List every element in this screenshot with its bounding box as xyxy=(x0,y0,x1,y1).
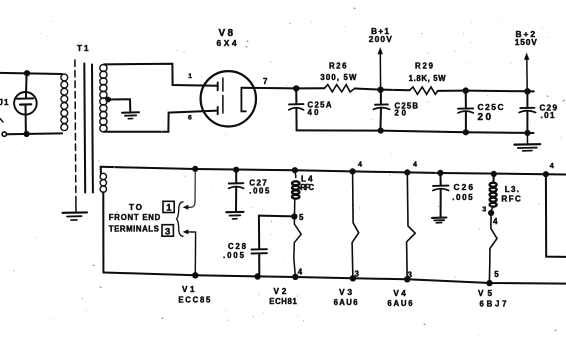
svg-text:RFC: RFC xyxy=(300,183,314,192)
svg-text:C28: C28 xyxy=(228,242,247,251)
svg-text:ECC85: ECC85 xyxy=(178,296,211,305)
svg-text:J1: J1 xyxy=(0,98,9,107)
svg-text:1: 1 xyxy=(166,203,172,214)
svg-text:TERMINALS: TERMINALS xyxy=(109,224,159,233)
svg-text:3: 3 xyxy=(408,271,413,280)
svg-text:200V: 200V xyxy=(369,34,392,44)
svg-text:.005: .005 xyxy=(223,251,245,260)
svg-text:5: 5 xyxy=(299,213,304,222)
svg-text:R29: R29 xyxy=(415,61,434,70)
svg-text:1: 1 xyxy=(188,73,192,80)
svg-text:5: 5 xyxy=(494,270,499,279)
svg-text:3: 3 xyxy=(355,270,360,279)
svg-text:RFC: RFC xyxy=(501,194,521,203)
svg-text:R26: R26 xyxy=(329,61,347,70)
svg-text:3: 3 xyxy=(165,226,170,237)
svg-text:FRONT END: FRONT END xyxy=(109,213,161,222)
svg-text:150V: 150V xyxy=(515,37,537,47)
svg-text:C26: C26 xyxy=(454,182,474,192)
svg-text:TO: TO xyxy=(129,203,143,212)
svg-text:6AU6: 6AU6 xyxy=(387,299,413,308)
svg-text:40: 40 xyxy=(308,108,320,117)
svg-text:1.8K, 5W: 1.8K, 5W xyxy=(409,74,447,83)
svg-text:3: 3 xyxy=(482,205,486,214)
svg-text:300, 5W: 300, 5W xyxy=(320,73,357,82)
svg-text:6AU6: 6AU6 xyxy=(334,298,359,307)
svg-text:4: 4 xyxy=(493,217,498,226)
svg-text:T1: T1 xyxy=(77,44,90,53)
svg-text:6X4: 6X4 xyxy=(217,38,237,48)
svg-text:4: 4 xyxy=(358,159,362,168)
svg-text:.005: .005 xyxy=(452,193,473,202)
svg-text:7: 7 xyxy=(263,77,268,86)
svg-text:.01: .01 xyxy=(541,111,555,120)
svg-text:ECH81: ECH81 xyxy=(269,297,297,306)
svg-text:C25C: C25C xyxy=(478,102,504,112)
svg-text:.005: .005 xyxy=(249,187,270,196)
svg-text:6: 6 xyxy=(188,114,192,121)
svg-text:4: 4 xyxy=(413,159,417,168)
svg-text:20: 20 xyxy=(478,112,492,123)
svg-text:L3.: L3. xyxy=(505,185,519,194)
svg-text:4: 4 xyxy=(550,161,554,170)
svg-text:4: 4 xyxy=(298,267,303,276)
